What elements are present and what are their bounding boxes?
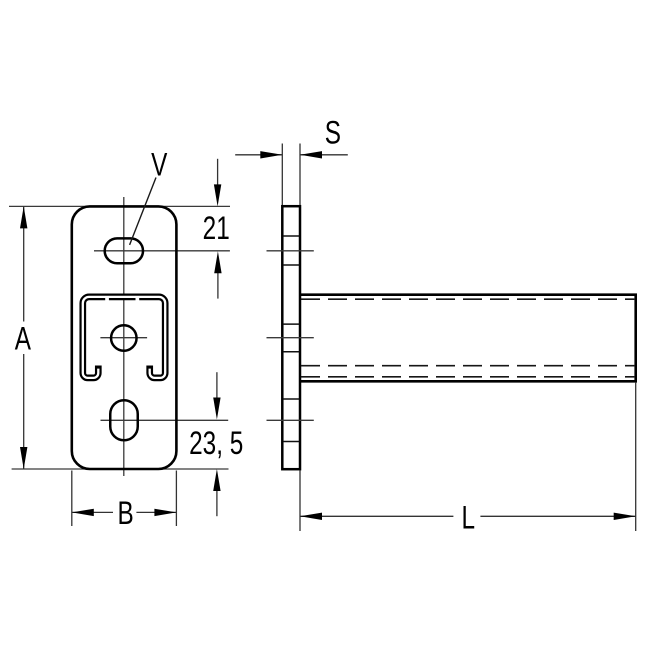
top slot (oblong hole) [105, 238, 143, 263]
channel side view outline [300, 295, 636, 382]
C-profile channel cross-section (double line) [83, 297, 165, 378]
svg-text:21: 21 [203, 211, 230, 247]
side view crosshairs [267, 251, 314, 420]
dimension B [72, 471, 177, 527]
side plate interior lines (slot / hole edges) [283, 236, 299, 442]
channel dashed hidden lines [301, 299, 634, 377]
side view plate [282, 206, 300, 469]
svg-text:V: V [151, 147, 167, 183]
centerline vertical (front view) [123, 197, 125, 476]
svg-text:B: B [117, 496, 133, 532]
dimension 23,5 [216, 372, 218, 400]
extension line plate top [9, 205, 230, 207]
svg-text:A: A [15, 321, 31, 357]
V label leader line [130, 178, 156, 245]
bottom slot crosshair [101, 419, 229, 421]
svg-text:S: S [325, 115, 341, 151]
svg-text:L: L [462, 500, 476, 536]
slot edge gaps in inner top line [105, 298, 109, 301]
extension line plate bottom [12, 468, 229, 470]
plate outline front view [72, 206, 177, 469]
dimension L [300, 383, 636, 531]
bottom slot (vertical oblong hole) [110, 400, 138, 440]
V label text [151, 147, 167, 183]
middle hole [111, 325, 137, 351]
dimension S [235, 144, 348, 206]
svg-text:23, 5: 23, 5 [189, 426, 243, 462]
dimension 21 [217, 159, 219, 190]
middle hole crosshair [100, 337, 147, 339]
dimension A [23, 206, 25, 469]
top slot crosshair [94, 250, 230, 252]
